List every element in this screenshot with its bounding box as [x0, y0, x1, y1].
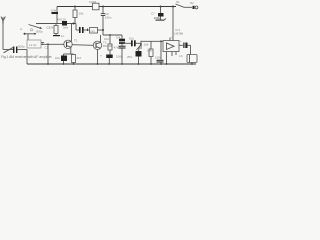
wire: R2 to cap bus: [75, 24, 77, 31]
node coil top: [34, 33, 36, 35]
battery BT1 9V: [190, 1, 198, 9]
coil tap stubs: [41, 42, 44, 44]
antenna A1: [1, 17, 22, 32]
node rail-C2: [74, 6, 76, 8]
resistor R4 box: [90, 28, 104, 34]
resistor R7: [108, 44, 112, 50]
svg-text:1n: 1n: [61, 34, 65, 38]
svg-text:A: A: [20, 27, 22, 31]
wire: base wire y44: [41, 43, 64, 45]
svg-text:S1: S1: [176, 0, 180, 4]
svg-text:LM386: LM386: [174, 32, 184, 36]
loudspeaker LS1: [179, 54, 197, 64]
node base bus: [73, 23, 75, 25]
wire: antenna down leg: [2, 23, 4, 50]
svg-text:AA119: AA119: [57, 18, 66, 22]
resistor R6: [147, 41, 153, 64]
svg-text:100n: 100n: [51, 9, 58, 13]
resistor R5: [116, 55, 132, 65]
capacitor C10 output electrolytic: [179, 39, 191, 48]
svg-text:500p: 500p: [18, 45, 25, 49]
top supply rail: [57, 6, 176, 8]
wire: tap to ground: [47, 44, 49, 64]
svg-text:10n: 10n: [104, 37, 109, 41]
svg-text:C7: C7: [151, 12, 155, 16]
svg-text:5n6: 5n6: [63, 26, 68, 30]
wire: coil top link: [24, 33, 36, 35]
capacitor C8 electrolytic: [136, 46, 142, 64]
wire: left drop from rail: [56, 7, 58, 24]
wire: pin stub: [175, 52, 177, 56]
svg-text:100n: 100n: [105, 15, 112, 19]
svg-text:100n: 100n: [155, 56, 162, 60]
wire: Q1 to Q2 base: [72, 44, 93, 47]
wire: emitter branch: [64, 53, 74, 55]
diode D2 column: [116, 35, 126, 58]
coil L1 box: [27, 40, 41, 48]
node rail-C7: [160, 6, 162, 8]
resistor R8 series in rail: [89, 0, 99, 10]
capacitor C5 chain: [100, 35, 119, 64]
svg-text:47k: 47k: [114, 46, 119, 50]
potentiometer P1: [137, 41, 149, 50]
svg-text:T1: T1: [74, 39, 78, 43]
wire: tank to ground: [26, 50, 28, 65]
wire: Q1 emitter down: [70, 47, 72, 54]
op-amp IC1 box: [163, 36, 179, 52]
node base tap: [47, 43, 49, 45]
node mid bus: [109, 34, 111, 36]
node rail-IC1: [102, 6, 104, 8]
svg-text:L1 fer: L1 fer: [29, 43, 37, 47]
svg-text:10u: 10u: [55, 56, 60, 60]
loop mark: [30, 29, 32, 31]
resistor R2 10k: [73, 7, 84, 24]
wire: Q2 collector up: [100, 35, 102, 42]
resistor R3: [72, 55, 82, 65]
variable capacitor C1: [3, 45, 27, 54]
wire: input bus to IC: [141, 40, 163, 42]
svg-text:10k: 10k: [144, 43, 149, 47]
svg-text:10k: 10k: [79, 12, 84, 16]
switch S1: [176, 0, 193, 7]
svg-text:4k7: 4k7: [77, 56, 82, 60]
wire: base bus y23.5: [36, 23, 76, 25]
trimmer arrow: [29, 25, 42, 29]
node IC input: [160, 40, 162, 42]
node rail-drop: [172, 6, 174, 8]
capacitor C3: [76, 27, 90, 33]
node gnd taps: [47, 63, 49, 65]
wire: IC ground pin: [166, 52, 168, 65]
transistor Q1: [64, 39, 78, 49]
svg-text:10u: 10u: [129, 37, 134, 41]
wire: Q2 emitter down: [97, 50, 99, 65]
capacitor C4 electrolytic: [55, 54, 67, 64]
wire: rail drop to IC top: [172, 7, 174, 41]
svg-text:C1: C1: [46, 26, 50, 30]
diode D1: [57, 18, 68, 30]
svg-text:+: +: [180, 39, 182, 43]
resistor R1: [49, 24, 65, 39]
capacitor C2 100n: [51, 9, 59, 15]
wire: rail drop to mid: [102, 7, 104, 14]
node small plus: [86, 29, 89, 32]
capacitor C6: [124, 37, 142, 47]
svg-text:Fig.1 AM receiver with AF amp: Fig.1 AM receiver with AF amplifier: [1, 55, 53, 59]
wire: mid bus y35: [103, 34, 122, 36]
svg-text:res: res: [91, 29, 96, 33]
capacitor C7 electrolytic on rail: [151, 7, 166, 21]
node coil link end: [24, 33, 26, 35]
svg-text:25V: 25V: [127, 55, 132, 59]
svg-text:LS: LS: [179, 54, 183, 58]
node mid cross: [102, 29, 104, 31]
svg-text:100R: 100R: [89, 0, 97, 4]
capacitor C9 on drop: [101, 12, 105, 15]
transistor Q2: [93, 41, 112, 50]
wire: coil top leg: [27, 34, 29, 40]
svg-text:500p: 500p: [36, 29, 43, 33]
wire: pin corner: [171, 52, 173, 57]
capacitor C9 zobel: [155, 41, 164, 64]
wire: Q1 collector up: [71, 24, 73, 42]
ground rail: [27, 63, 196, 65]
wire: to speaker: [190, 45, 192, 54]
svg-text:9V: 9V: [190, 1, 194, 5]
